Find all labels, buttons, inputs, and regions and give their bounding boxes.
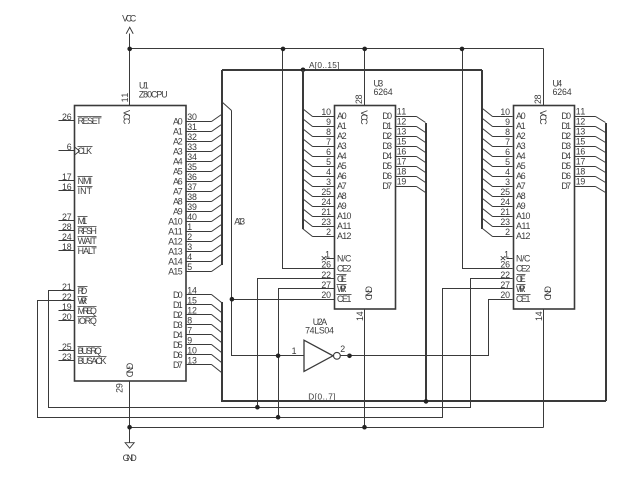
U1 pin 2 A12 [168,232,211,246]
svg-text:A11: A11 [337,221,351,231]
svg-text:16: 16 [62,182,72,192]
bus entry U1 D7 [212,365,222,373]
svg-text:38: 38 [187,192,197,202]
U4 pin 5 A5 [497,157,526,171]
bus entry U1 A13 [212,245,222,252]
svg-text:74LS04: 74LS04 [305,326,334,336]
svg-text:22: 22 [321,270,331,280]
bus entry U3 D7 [417,187,426,193]
svg-text:A0: A0 [173,116,183,126]
svg-text:A12: A12 [516,231,530,241]
U3 pin 13 D2 [382,127,416,141]
svg-text:A4: A4 [337,151,347,161]
svg-text:8: 8 [326,127,331,137]
svg-text:D0: D0 [382,111,392,121]
svg-text:5: 5 [326,157,331,167]
bus entry U1 D3 [212,325,222,333]
svg-text:6: 6 [505,147,510,157]
svg-text:D3: D3 [561,141,571,151]
junction VCC/U3 VCC [362,47,367,52]
U1 pin 35 A5 [173,162,212,176]
svg-text:OE: OE [516,274,526,284]
bus entry U3 A1 [303,119,313,127]
bus A[0..15] horizontal [222,69,482,71]
bus entry U1 D2 [212,315,222,323]
svg-text:23: 23 [62,352,72,362]
U4 pin 7 A3 [497,137,526,151]
U4 pin 19 D7 [561,177,595,191]
svg-text:1: 1 [187,222,192,232]
U3 pin 15 D3 [382,137,416,151]
U4 pin 1 N/C [501,249,531,263]
U1 pin 23 BUSACK [59,352,107,366]
svg-text:8: 8 [187,316,192,326]
U4 pin 4 A6 [497,167,526,181]
U1 pin 24 WAIT [59,232,98,246]
U1 pin 37 A7 [173,182,212,196]
svg-text:A9: A9 [337,201,347,211]
svg-text:WR: WR [337,284,347,294]
U1 pin 31 A1 [173,122,212,136]
svg-text:A2: A2 [337,131,347,141]
bus A[0..15] U3 vertical [302,70,304,229]
svg-text:A3: A3 [516,141,526,151]
U3 pin 4 A6 [319,167,347,181]
U4 pin 24 A9 [497,197,526,211]
svg-text:RFSH: RFSH [78,226,97,236]
svg-text:2: 2 [505,227,510,237]
svg-text:17: 17 [576,157,586,167]
bus entry U3 D0 [417,117,426,123]
svg-text:7: 7 [187,326,192,336]
svg-text:17: 17 [62,172,72,182]
svg-text:23: 23 [500,217,510,227]
wire VCC rail [130,48,544,50]
bus entry U1 A7 [212,185,222,192]
svg-text:3: 3 [505,177,510,187]
U4 pin 20 CE1 [500,290,530,304]
U1 pin 7 D4 [173,326,212,340]
svg-text:A12: A12 [337,231,351,241]
bus entry U1 D0 [212,295,222,303]
svg-text:21: 21 [321,207,331,217]
U1 pin 16 INT [59,182,93,196]
U3 pin 6 A4 [319,147,347,161]
U4 pin 15 D3 [561,137,595,151]
bus entry U1 A12 [212,235,222,242]
svg-text:D5: D5 [173,340,183,350]
svg-text:BUSRQ: BUSRQ [78,346,102,356]
svg-text:N/C: N/C [337,253,352,263]
svg-text:9: 9 [326,117,331,127]
U4 pin 8 A2 [497,127,526,141]
bus entry U4 A5 [483,159,493,167]
U1 pin 27 M1 [59,212,88,226]
wire WR net from U1 [38,289,513,418]
svg-text:3: 3 [187,242,192,252]
U3 pin 20 CE1 [321,290,351,304]
bus entry U3 A12 [303,229,313,237]
RAM U4 6264 body [514,79,575,309]
bus entry U4 D0 [596,117,606,123]
svg-text:17: 17 [397,157,407,167]
junction VCC/U1 [127,47,132,52]
U2A pin 2 output [340,344,349,356]
U1 pin 12 D2 [173,306,212,320]
svg-text:A11: A11 [516,221,530,231]
junction VCC/U4 CE2 [460,47,465,52]
bus entry U4 A9 [483,199,493,207]
U3 pin 26 CE2 [321,259,351,273]
svg-text:1: 1 [325,249,330,259]
svg-text:10: 10 [500,107,510,117]
svg-text:12: 12 [576,117,586,127]
svg-text:HALT: HALT [78,246,98,256]
svg-text:D7: D7 [561,181,571,191]
svg-text:A13: A13 [168,246,182,256]
U1 pin 28 RFSH [59,222,97,236]
U1 pin 21 RD [59,282,88,296]
svg-text:12: 12 [187,306,197,316]
U1 pin 11 VCC [120,93,131,125]
svg-text:CE2: CE2 [337,263,351,273]
U1 pin 8 D3 [173,316,212,330]
svg-text:D4: D4 [561,151,571,161]
bus entry U1 D4 [212,335,222,343]
U1 pin 19 MREQ [59,302,97,316]
junction bus A/U3 [301,68,306,73]
svg-text:5: 5 [505,157,510,167]
U3 pin 14 GND [355,286,374,321]
wire VCC drop to U3 CE2 [283,49,335,269]
U4 pin 3 A7 [497,177,526,191]
bus entry U1 A5 [212,165,222,172]
bus entry U4 D5 [596,167,606,173]
U4 pin 9 A1 [497,117,526,131]
svg-text:A5: A5 [337,161,347,171]
U3 pin 2 A12 [319,227,352,241]
U1 pin 26 RESET [59,112,103,126]
svg-text:11: 11 [397,107,407,117]
svg-text:A4: A4 [516,151,526,161]
svg-text:16: 16 [397,147,407,157]
U3 pin 17 D5 [382,157,416,171]
U3 pin 19 D7 [382,177,416,191]
svg-text:A5: A5 [516,161,526,171]
svg-text:A1: A1 [516,121,526,131]
bus entry U3 A2 [303,129,313,137]
bus entry U3 D2 [417,137,426,143]
U4 pin 13 D2 [561,127,595,141]
wire GND rail [130,427,544,429]
svg-text:D7: D7 [382,181,392,191]
svg-text:6: 6 [326,147,331,157]
svg-text:21: 21 [62,282,72,292]
U1 pin 29 GND [115,363,135,393]
svg-text:A9: A9 [173,206,183,216]
U4 pin 16 D4 [561,147,595,161]
svg-text:A9: A9 [516,201,526,211]
wire A13 to U3 CE1 [232,299,335,301]
bus entry U3 A9 [303,199,313,207]
U3 pin 9 A1 [319,117,347,131]
svg-text:37: 37 [187,182,197,192]
svg-text:19: 19 [397,177,407,187]
svg-text:28: 28 [62,222,72,232]
svg-text:29: 29 [115,383,125,393]
svg-text:4: 4 [187,252,192,262]
svg-text:13: 13 [187,356,197,366]
svg-text:14: 14 [187,286,197,296]
U4 pin 6 A4 [497,147,526,161]
svg-text:A5: A5 [173,166,183,176]
U1 pin 4 A14 [168,252,211,266]
U4 pin 14 GND [534,286,553,321]
U3 pin 16 D4 [382,147,416,161]
CPU U1 Z80CPU body [75,80,187,381]
U3 pin 22 OE [321,270,346,284]
svg-text:M1: M1 [78,216,88,226]
bus entry U3 A7 [303,179,313,187]
U4 pin 18 D6 [561,167,595,181]
svg-text:N/C: N/C [516,253,531,263]
svg-text:14: 14 [534,311,544,321]
svg-text:15: 15 [397,137,407,147]
svg-text:D2: D2 [382,131,392,141]
U1 pin 15 D1 [173,296,212,310]
svg-text:20: 20 [321,290,331,300]
U4 pin 11 D0 [561,107,595,121]
svg-text:2: 2 [187,232,192,242]
bus entry U4 A6 [483,169,493,177]
wire RD net from U1 [49,279,513,408]
bus entry U4 A4 [483,149,493,157]
junction WR/A13 input [276,354,281,359]
svg-text:24: 24 [321,197,331,207]
U3 pin 3 A7 [319,177,347,191]
bus entry U1 D5 [212,345,222,353]
bus entry U4 D1 [596,127,606,133]
svg-text:21: 21 [500,207,510,217]
U1 pin 40 A10 [168,212,211,226]
svg-text:2: 2 [326,227,331,237]
svg-text:7: 7 [505,137,510,147]
svg-text:A7: A7 [337,181,347,191]
ground symbol GND [123,443,137,463]
svg-text:GND: GND [123,453,137,463]
svg-text:D[0..7]: D[0..7] [308,392,335,402]
U3 pin 7 A3 [319,137,347,151]
svg-text:26: 26 [500,259,510,269]
svg-text:A3: A3 [337,141,347,151]
bus entry U4 D6 [596,177,606,183]
bus entry U4 D4 [596,157,606,163]
svg-text:25: 25 [321,187,331,197]
svg-text:35: 35 [187,162,197,172]
bus entry U3 A11 [303,219,313,227]
svg-text:A14: A14 [168,256,182,266]
wire net A13 vertical [232,111,305,356]
svg-text:A2: A2 [516,131,526,141]
U1 pin 14 D0 [173,286,212,300]
U1 pin 36 A6 [173,172,212,186]
U1 pin 18 HALT [59,242,98,256]
junction bus D/U3 [424,399,429,404]
bus entry U4 A11 [483,219,493,227]
svg-text:MREQ: MREQ [78,306,97,316]
svg-text:A6: A6 [337,171,347,181]
wire VCC drop to U3 pin 28 [364,49,366,106]
svg-text:9: 9 [505,117,510,127]
U3 pin 10 A0 [319,107,347,121]
junction WR/U3 WR [276,415,281,420]
svg-text:16: 16 [576,147,586,157]
svg-text:33: 33 [187,142,197,152]
U1 pin 39 A9 [173,202,212,216]
svg-text:D7: D7 [173,360,183,370]
svg-text:D4: D4 [382,151,392,161]
svg-text:OE: OE [337,274,347,284]
svg-text:D0: D0 [561,111,571,121]
svg-text:D2: D2 [173,310,183,320]
U1 pin 33 A3 [173,142,212,156]
svg-text:CE1: CE1 [516,294,530,304]
svg-text:5: 5 [187,262,192,272]
U4 pin 21 A10 [497,207,531,221]
bus entry U1 D6 [212,355,222,363]
svg-text:24: 24 [62,232,72,242]
bus entry U1 A1 [212,125,222,132]
bus D[0..7] U3 vertical [425,123,427,401]
inverter U2A 74LS04 body [304,317,340,371]
svg-text:GND: GND [543,286,553,300]
svg-text:27: 27 [62,212,72,222]
svg-text:WAIT: WAIT [78,236,98,246]
svg-text:D6: D6 [173,350,183,360]
U1 pin 1 A11 [168,222,211,236]
bus entry A13 [222,102,232,111]
bus entry U3 A0 [303,109,313,117]
svg-text:18: 18 [397,167,407,177]
svg-text:A15: A15 [168,266,182,276]
U1 pin 6 CLK [59,142,93,156]
svg-text:NMI: NMI [78,176,92,186]
U1 pin 9 D5 [173,336,212,350]
svg-text:6264: 6264 [553,87,572,97]
U1 pin 22 WR [59,292,88,306]
svg-text:A6: A6 [173,176,183,186]
wire U3 GND drop [364,309,366,428]
svg-text:D5: D5 [382,161,392,171]
svg-text:D3: D3 [382,141,392,151]
svg-text:14: 14 [355,311,365,321]
U1 pin 34 A4 [173,152,212,166]
svg-text:D2: D2 [561,131,571,141]
svg-text:1: 1 [504,249,509,259]
bus entry U3 D5 [417,167,426,173]
junction A13/CE1 [230,297,235,302]
svg-text:18: 18 [576,167,586,177]
bus entry U3 D1 [417,127,426,133]
svg-text:26: 26 [62,112,72,122]
bus entry U3 D6 [417,177,426,183]
junction GND/U1 [127,425,132,430]
svg-text:4: 4 [326,167,331,177]
svg-text:12: 12 [397,117,407,127]
bus entry U4 A10 [483,209,493,217]
svg-text:VCC: VCC [359,110,369,125]
svg-text:RESET: RESET [78,116,103,126]
svg-text:20: 20 [62,312,72,322]
bus entry U1 D1 [212,305,222,313]
U4 pin 25 A8 [497,187,526,201]
svg-text:11: 11 [576,107,586,117]
bus entry U4 D7 [596,187,606,193]
svg-text:A3: A3 [173,146,183,156]
svg-text:3: 3 [326,177,331,187]
svg-text:15: 15 [187,296,197,306]
svg-text:A8: A8 [337,191,347,201]
svg-text:A10: A10 [337,211,351,221]
U1 pin 3 A13 [168,242,211,256]
bus entry U4 A2 [483,129,493,137]
bus entry U4 A8 [483,189,493,197]
svg-text:VCC: VCC [538,110,548,125]
svg-text:A10: A10 [516,211,530,221]
svg-text:28: 28 [354,94,364,104]
bus entry U1 A14 [212,255,222,262]
U1 pin 38 A8 [173,192,212,206]
bus entry U3 A3 [303,139,313,147]
junction VCC/U3 CE2 [281,47,286,52]
svg-text:34: 34 [187,152,197,162]
svg-text:40: 40 [187,212,197,222]
U3 pin 24 A9 [319,197,347,211]
svg-text:4: 4 [505,167,510,177]
svg-text:19: 19 [62,302,72,312]
bus entry U1 A9 [212,205,222,212]
svg-text:WR: WR [516,284,526,294]
svg-text:INT: INT [78,186,93,196]
wire U2A output to U4 CE1 [341,300,513,356]
svg-text:D4: D4 [173,330,183,340]
svg-text:A8: A8 [173,196,183,206]
svg-text:D1: D1 [173,300,183,310]
U3 pin 21 A10 [319,207,352,221]
bus A[0..15] U1 vertical [221,70,223,265]
svg-text:D0: D0 [173,290,183,300]
svg-text:GND: GND [125,363,135,377]
svg-text:A13: A13 [234,217,245,227]
bus D[0..7] U4 vertical [605,123,607,401]
svg-text:GND: GND [364,286,374,300]
bus entry U1 A3 [212,145,222,152]
U3 pin 5 A5 [319,157,347,171]
svg-text:A7: A7 [173,186,183,196]
bus D[0..7] U1 vertical [221,302,223,401]
U1 pin 13 D7 [173,356,212,370]
wire U1 GND pin 29 stem [129,381,131,443]
svg-text:D1: D1 [561,121,571,131]
svg-text:27: 27 [500,280,510,290]
svg-text:CE1: CE1 [337,294,351,304]
svg-text:VCC: VCC [122,110,132,125]
U3 pin 27 WR [321,280,346,294]
bus entry U1 A0 [212,115,222,122]
bus entry U3 A10 [303,209,313,217]
U4 pin 2 A12 [497,227,531,241]
svg-text:10: 10 [187,346,197,356]
